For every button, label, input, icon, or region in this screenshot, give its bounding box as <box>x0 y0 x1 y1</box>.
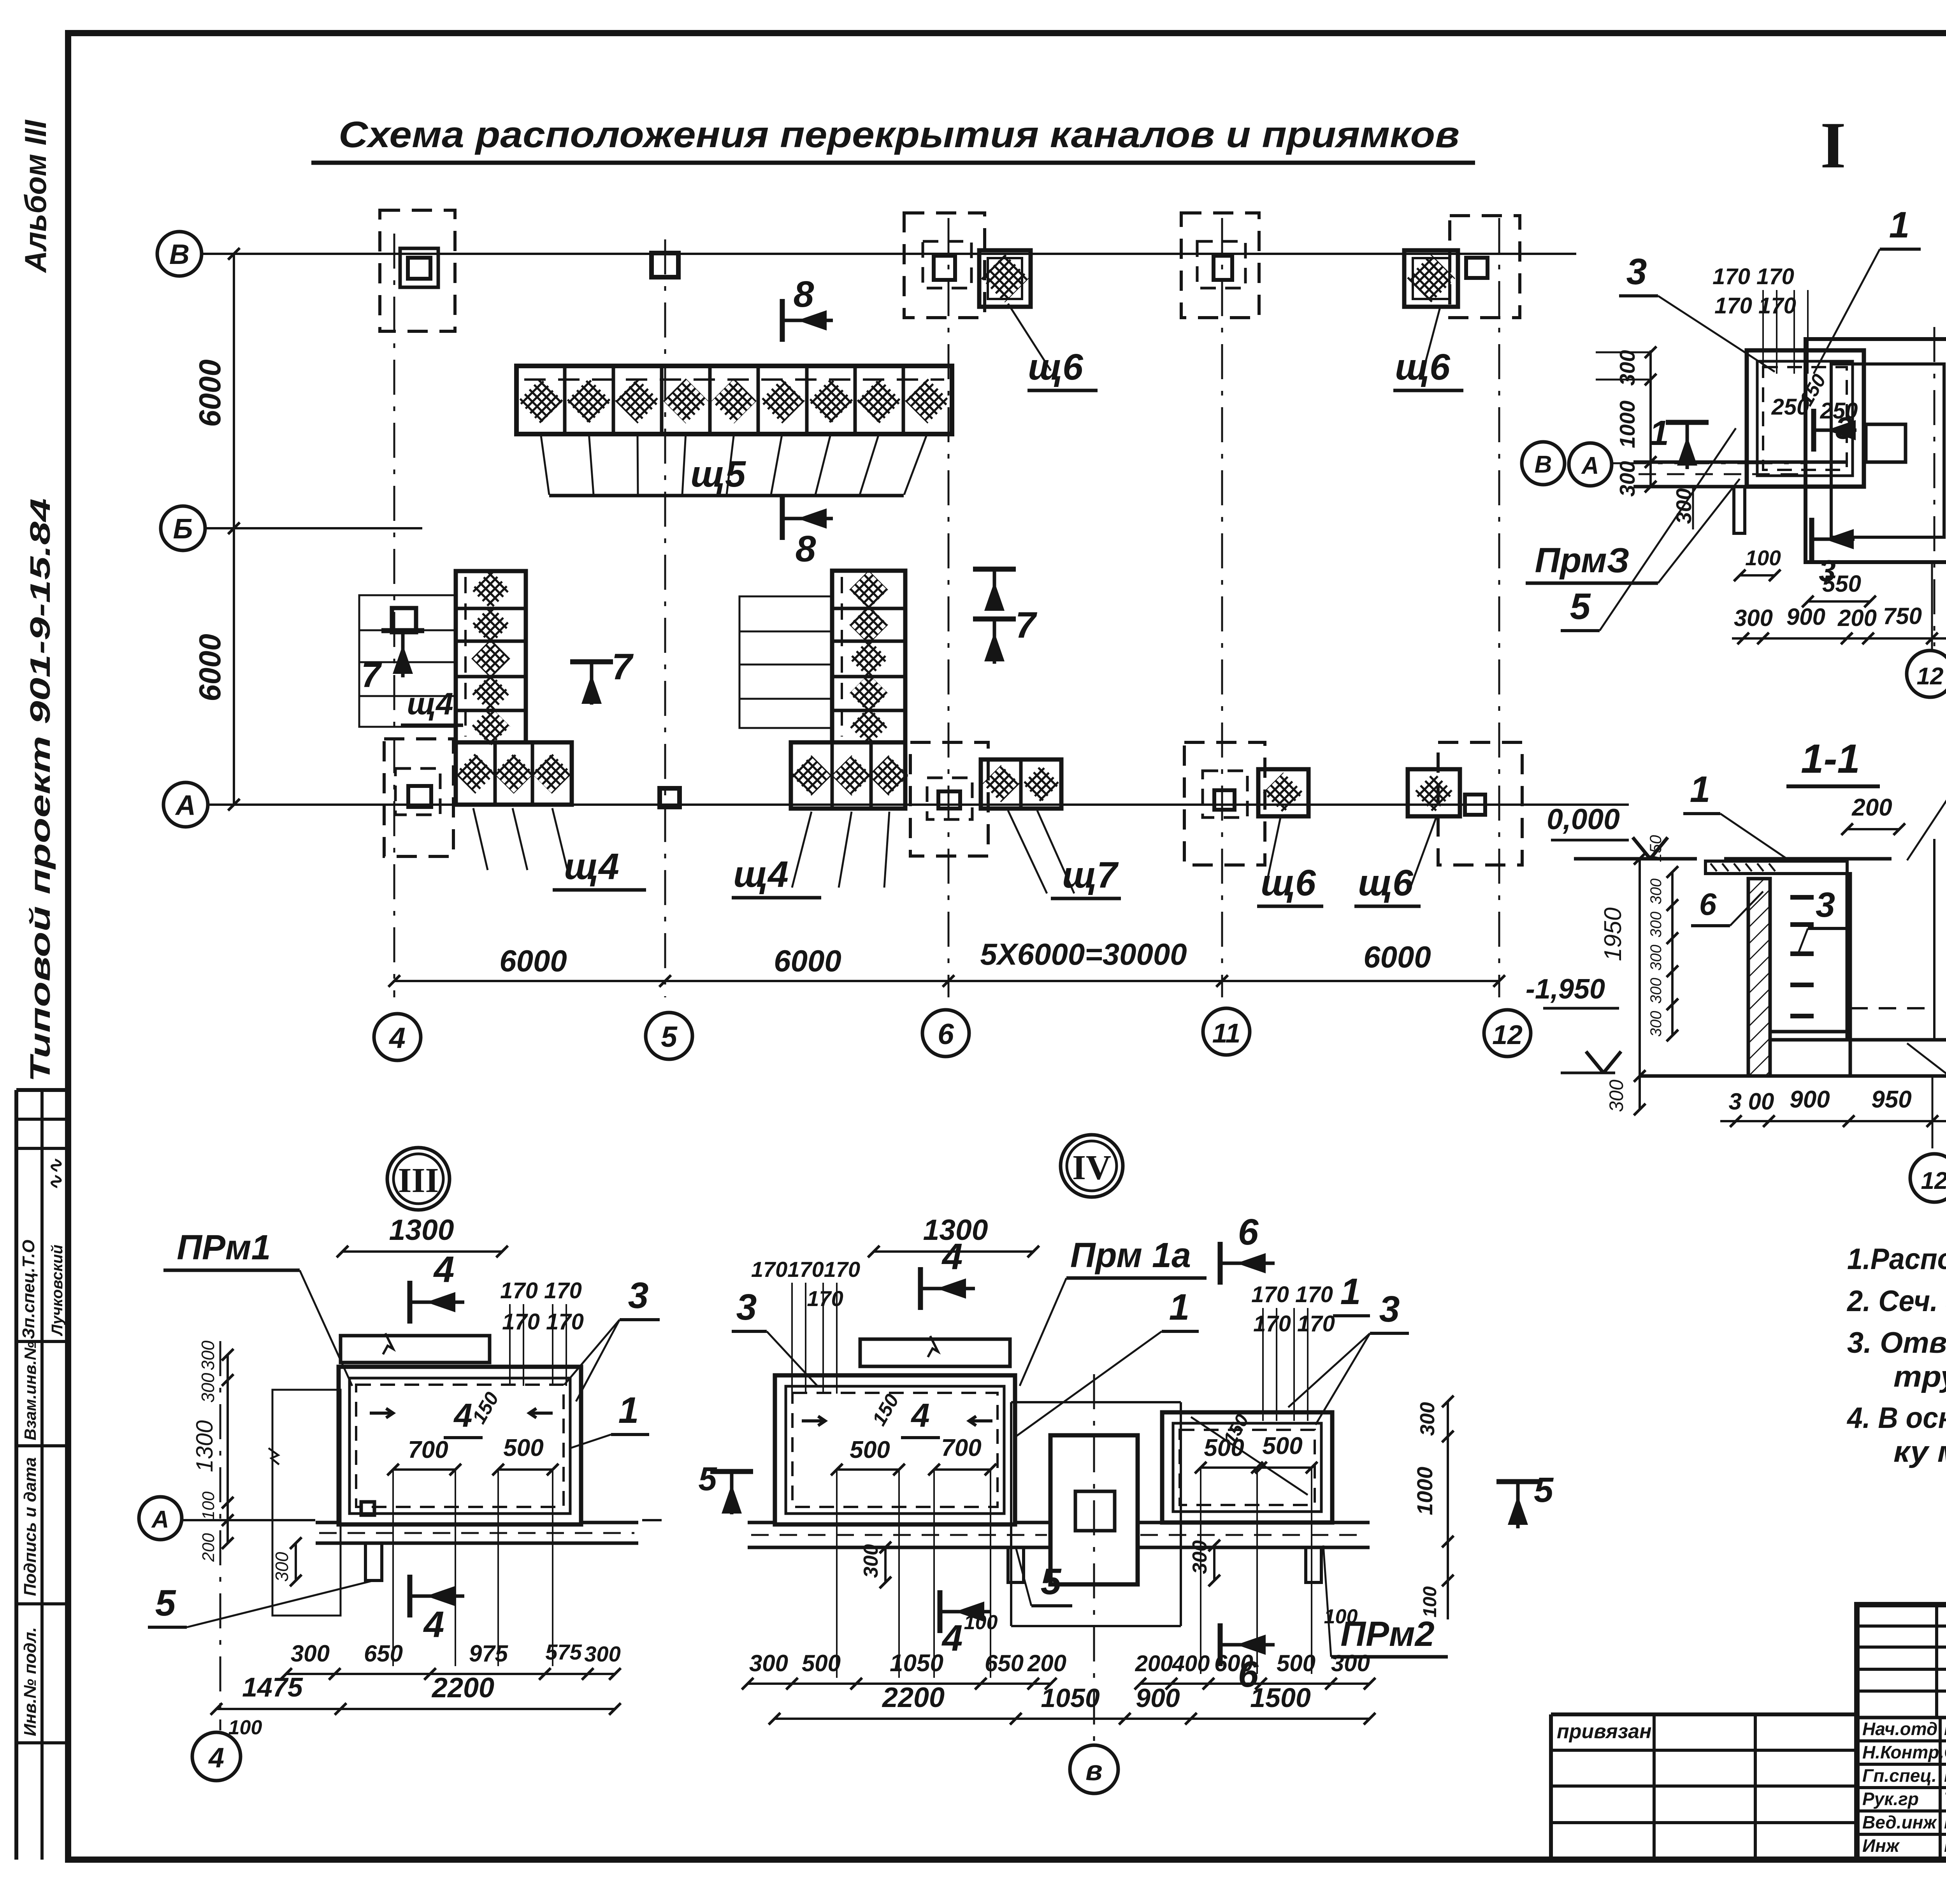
svg-text:900: 900 <box>1136 1683 1180 1713</box>
svg-text:750: 750 <box>1883 603 1922 629</box>
svg-text:1000: 1000 <box>1412 1467 1437 1515</box>
svg-text:300: 300 <box>749 1650 788 1676</box>
svg-text:300: 300 <box>291 1640 330 1667</box>
svg-text:щ6: щ6 <box>1395 346 1451 388</box>
svg-text:12: 12 <box>1921 1167 1946 1194</box>
svg-text:I: I <box>1820 109 1846 182</box>
svg-text:Гп.спец.: Гп.спец. <box>1862 1765 1937 1786</box>
svg-text:6: 6 <box>1238 1211 1259 1253</box>
svg-text:щ5: щ5 <box>690 454 746 495</box>
svg-text:600: 600 <box>1214 1650 1253 1676</box>
svg-text:Подпись и дата: Подпись и дата <box>21 1457 40 1596</box>
svg-text:1500: 1500 <box>1250 1682 1311 1713</box>
svg-text:6000: 6000 <box>774 944 841 978</box>
svg-text:5Х6000=30000: 5Х6000=30000 <box>980 937 1187 971</box>
svg-text:1950: 1950 <box>1600 907 1626 961</box>
svg-text:3: 3 <box>1835 411 1853 445</box>
svg-text:200: 200 <box>1135 1651 1173 1676</box>
svg-text:Власенко: Власенко <box>1944 1765 1946 1786</box>
svg-text:3: 3 <box>1816 886 1835 925</box>
svg-text:3: 3 <box>1626 251 1647 292</box>
svg-text:200: 200 <box>199 1533 218 1562</box>
svg-text:Зп.спец.Т.О: Зп.спец.Т.О <box>19 1240 38 1340</box>
svg-text:ПРм1: ПРм1 <box>177 1228 270 1267</box>
svg-text:4: 4 <box>388 1021 406 1054</box>
svg-text:3. Отверстия в щитах для пропу: 3. Отверстия в щитах для пропуска технол… <box>1847 1326 1946 1359</box>
svg-text:650: 650 <box>364 1640 403 1667</box>
svg-text:1: 1 <box>618 1390 639 1431</box>
svg-text:7: 7 <box>361 656 382 695</box>
svg-text:12: 12 <box>1492 1020 1523 1050</box>
svg-text:4: 4 <box>910 1397 929 1434</box>
svg-text:1300: 1300 <box>389 1213 454 1246</box>
svg-text:100: 100 <box>199 1491 218 1520</box>
svg-text:300: 300 <box>1605 1079 1627 1112</box>
svg-text:200: 200 <box>1851 794 1892 821</box>
svg-text:200: 200 <box>1837 605 1877 631</box>
svg-text:трубопроводов вырезать по мест: трубопроводов вырезать по месту. <box>1893 1360 1946 1393</box>
svg-text:300: 300 <box>1647 945 1665 971</box>
svg-text:300: 300 <box>198 1373 218 1403</box>
svg-text:300: 300 <box>1734 605 1773 631</box>
svg-text:-1,950: -1,950 <box>1526 974 1605 1005</box>
svg-text:Тахтамышева: Тахтамышева <box>1944 1788 1946 1809</box>
svg-text:500: 500 <box>503 1435 543 1461</box>
svg-text:5: 5 <box>1041 1561 1062 1602</box>
svg-text:300: 300 <box>1189 1540 1211 1574</box>
svg-text:4: 4 <box>433 1249 455 1290</box>
svg-text:170: 170 <box>807 1286 843 1311</box>
svg-text:6: 6 <box>1699 887 1717 921</box>
svg-text:0,000: 0,000 <box>1547 803 1620 835</box>
svg-text:3: 3 <box>628 1275 649 1316</box>
svg-text:300: 300 <box>272 1552 292 1582</box>
svg-text:IV: IV <box>1072 1148 1111 1187</box>
svg-text:щ4: щ4 <box>407 686 453 721</box>
svg-text:5: 5 <box>155 1582 176 1624</box>
svg-text:6000: 6000 <box>1363 940 1431 974</box>
svg-text:1.Расположение каналов и приям: 1.Расположение каналов и приямков см. ли… <box>1847 1243 1946 1276</box>
svg-text:300: 300 <box>1647 978 1665 1004</box>
svg-text:4: 4 <box>208 1742 224 1774</box>
svg-text:А: А <box>151 1506 169 1533</box>
svg-text:900: 900 <box>1786 604 1825 630</box>
svg-text:7: 7 <box>612 646 634 687</box>
svg-text:1: 1 <box>1169 1287 1190 1328</box>
svg-text:ПРм2: ПРм2 <box>1340 1615 1434 1654</box>
svg-text:170 170: 170 170 <box>1251 1282 1333 1307</box>
svg-text:300: 300 <box>1647 1011 1665 1037</box>
svg-text:Лучковский: Лучковский <box>49 1245 66 1336</box>
svg-text:300: 300 <box>584 1642 620 1666</box>
svg-text:III: III <box>398 1161 439 1200</box>
svg-text:Шейко: Шейко <box>1944 1718 1946 1739</box>
svg-text:170 170: 170 170 <box>1714 293 1796 318</box>
svg-text:5: 5 <box>661 1020 678 1053</box>
svg-text:8: 8 <box>796 528 816 570</box>
svg-text:Рук.гр: Рук.гр <box>1862 1789 1919 1809</box>
svg-text:1000: 1000 <box>1615 400 1639 448</box>
svg-text:Альбом III: Альбом III <box>18 120 53 273</box>
svg-text:300: 300 <box>1615 350 1639 386</box>
svg-text:100: 100 <box>1420 1586 1440 1617</box>
svg-text:100: 100 <box>228 1716 262 1739</box>
svg-text:1-1: 1-1 <box>1801 736 1860 782</box>
svg-text:1050: 1050 <box>890 1650 943 1677</box>
svg-text:8: 8 <box>794 274 814 315</box>
svg-text:Типовой проект 901-9-15.84: Типовой проект 901-9-15.84 <box>25 498 56 1082</box>
svg-text:5: 5 <box>698 1461 717 1498</box>
svg-text:200: 200 <box>1027 1650 1066 1676</box>
svg-text:В: В <box>1535 451 1552 478</box>
svg-text:щ6: щ6 <box>1261 862 1316 904</box>
svg-text:3: 3 <box>1379 1289 1400 1330</box>
svg-text:900: 900 <box>1790 1086 1830 1113</box>
svg-text:150: 150 <box>1646 835 1665 862</box>
svg-text:3: 3 <box>1819 554 1835 588</box>
svg-text:700: 700 <box>408 1436 448 1463</box>
svg-text:300: 300 <box>860 1544 882 1578</box>
svg-text:3 00: 3 00 <box>1729 1088 1774 1115</box>
svg-text:700: 700 <box>941 1435 981 1461</box>
svg-text:Нач.отд: Нач.отд <box>1862 1719 1937 1739</box>
svg-text:6: 6 <box>938 1018 954 1050</box>
svg-text:ПрмЗ: ПрмЗ <box>1535 541 1630 580</box>
svg-text:ку марки М 50 толщиной 100мм: ку марки М 50 толщиной 100мм <box>1893 1435 1946 1468</box>
svg-text:привязан: привязан <box>1557 1720 1652 1743</box>
svg-text:Б: Б <box>173 513 193 545</box>
svg-text:в: в <box>1085 1755 1103 1786</box>
svg-text:2200: 2200 <box>431 1672 494 1704</box>
svg-text:170 170: 170 170 <box>502 1309 584 1334</box>
svg-text:575: 575 <box>545 1640 582 1664</box>
svg-text:3: 3 <box>736 1287 757 1328</box>
svg-text:1: 1 <box>1340 1271 1361 1312</box>
svg-text:4: 4 <box>941 1236 963 1277</box>
svg-text:300: 300 <box>1647 912 1665 938</box>
svg-text:300: 300 <box>198 1340 218 1370</box>
svg-text:1: 1 <box>1690 769 1711 810</box>
svg-text:300: 300 <box>1647 879 1665 905</box>
svg-text:Прм 1а: Прм 1а <box>1070 1236 1191 1275</box>
svg-text:Сокальская: Сокальская <box>1944 1742 1946 1762</box>
svg-text:1050: 1050 <box>1041 1683 1099 1713</box>
svg-text:950: 950 <box>1871 1086 1911 1113</box>
svg-text:12: 12 <box>1917 663 1944 690</box>
svg-text:Взам.инв.№: Взам.инв.№ <box>21 1341 39 1440</box>
svg-text:5: 5 <box>1570 586 1591 627</box>
svg-text:500: 500 <box>1277 1650 1315 1676</box>
svg-text:1300: 1300 <box>191 1420 218 1472</box>
svg-text:щ4: щ4 <box>564 846 619 887</box>
svg-text:А: А <box>175 790 196 821</box>
svg-text:400: 400 <box>1172 1651 1210 1676</box>
svg-text:щ6: щ6 <box>1358 862 1414 904</box>
svg-text:500: 500 <box>802 1650 841 1676</box>
svg-text:Инв.№ подл.: Инв.№ подл. <box>21 1627 40 1736</box>
svg-text:1: 1 <box>1889 204 1910 246</box>
svg-text:4. В основании приямков выполн: 4. В основании приямков выполнить бетонн… <box>1846 1401 1946 1435</box>
svg-text:В: В <box>169 239 190 270</box>
svg-text:300: 300 <box>1331 1650 1370 1676</box>
svg-text:7: 7 <box>1015 605 1038 646</box>
svg-text:2. Сеч. 3-3 ÷ 9-9 см. лист 1: 2. Сеч. 3-3 ÷ 9-9 см. лист 12. <box>1846 1285 1946 1318</box>
svg-text:170 170: 170 170 <box>500 1278 582 1303</box>
svg-text:6000: 6000 <box>499 944 567 978</box>
svg-text:170170170: 170170170 <box>751 1257 860 1282</box>
svg-text:11: 11 <box>1212 1018 1241 1048</box>
svg-text:щ7: щ7 <box>1062 854 1119 896</box>
svg-text:Н.Контр.: Н.Контр. <box>1862 1742 1944 1762</box>
svg-text:500: 500 <box>1262 1433 1302 1459</box>
svg-text:Вед.инж: Вед.инж <box>1862 1812 1937 1832</box>
svg-text:щ6: щ6 <box>1028 346 1084 388</box>
svg-text:4: 4 <box>423 1604 444 1645</box>
svg-text:100: 100 <box>964 1611 998 1634</box>
svg-text:6000: 6000 <box>193 359 227 427</box>
svg-text:Схема расположения перекрытия: Схема расположения перекрытия каналов и … <box>339 114 1459 155</box>
svg-text:∿∿: ∿∿ <box>45 1158 67 1191</box>
svg-text:6000: 6000 <box>193 634 227 701</box>
svg-text:100: 100 <box>1745 546 1781 570</box>
svg-text:300: 300 <box>1615 461 1639 497</box>
svg-text:650: 650 <box>985 1650 1024 1676</box>
svg-text:5: 5 <box>1534 1471 1554 1510</box>
svg-text:А: А <box>1581 452 1599 479</box>
svg-text:4: 4 <box>941 1617 963 1659</box>
svg-text:1475: 1475 <box>242 1672 303 1702</box>
svg-text:Перова: Перова <box>1944 1835 1946 1856</box>
svg-text:170 170: 170 170 <box>1712 264 1794 289</box>
svg-text:Инж: Инж <box>1862 1835 1900 1856</box>
svg-text:300: 300 <box>1416 1402 1439 1436</box>
svg-text:Кат: Кат <box>1944 1812 1946 1832</box>
svg-text:500: 500 <box>850 1436 890 1463</box>
svg-text:1: 1 <box>1649 414 1669 453</box>
svg-text:2200: 2200 <box>882 1682 945 1713</box>
svg-text:щ4: щ4 <box>733 854 789 895</box>
svg-text:975: 975 <box>469 1640 509 1667</box>
